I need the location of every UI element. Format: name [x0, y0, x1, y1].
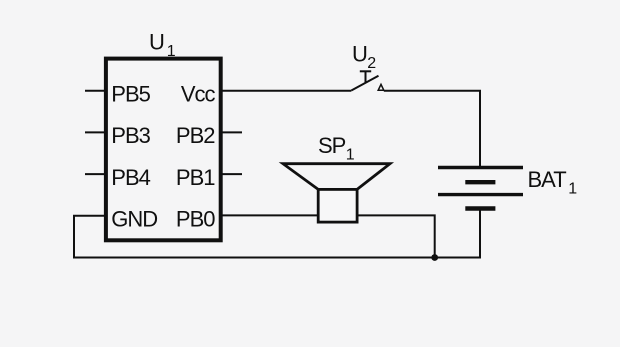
- svg-text:U: U: [352, 42, 367, 67]
- svg-text:PB0: PB0: [176, 206, 215, 231]
- svg-text:2: 2: [367, 55, 376, 72]
- wire pin stub PB1: [221, 173, 243, 175]
- switch contact triangle: [378, 84, 384, 90]
- svg-text:PB3: PB3: [111, 123, 150, 148]
- wire speaker to bottom rail: [357, 215, 435, 257]
- wire GND to bottom rail to battery bottom: [74, 209, 480, 258]
- wire pin stub PB2: [221, 131, 243, 133]
- svg-text:1: 1: [346, 146, 355, 163]
- speaker cone: [283, 164, 390, 190]
- IC U1 body: [106, 59, 221, 241]
- switch U2: [351, 42, 384, 91]
- wire pin stub PB4: [85, 173, 106, 175]
- svg-text:Vcc: Vcc: [181, 81, 216, 106]
- wire pin stub PB5: [85, 90, 106, 92]
- svg-text:PB2: PB2: [176, 123, 215, 148]
- svg-text:PB5: PB5: [111, 81, 150, 106]
- IC U1 (microcontroller): [106, 29, 221, 240]
- battery short plate bottom: [465, 206, 495, 210]
- switch lever: [351, 76, 378, 91]
- battery long plate top: [438, 166, 523, 169]
- svg-text:BAT: BAT: [528, 167, 567, 192]
- junction dot: [431, 254, 438, 261]
- svg-text:SP: SP: [318, 133, 346, 158]
- battery BAT1: [438, 167, 577, 208]
- svg-text:PB1: PB1: [176, 165, 215, 190]
- wire pin stub PB3: [85, 131, 106, 133]
- switch actuator T bar: [360, 70, 371, 72]
- battery short plate: [465, 180, 495, 184]
- switch actuator stem: [365, 71, 367, 82]
- battery long plate: [438, 193, 523, 196]
- wire Vcc to switch: [221, 90, 352, 92]
- svg-text:PB4: PB4: [111, 165, 150, 190]
- svg-text:1: 1: [568, 180, 577, 197]
- speaker body box: [318, 189, 357, 222]
- svg-text:GND: GND: [111, 206, 157, 231]
- wire switch to battery top: [384, 91, 480, 166]
- svg-text:1: 1: [167, 43, 176, 60]
- speaker SP1: [283, 133, 390, 222]
- wire PB0 to speaker: [221, 214, 319, 216]
- svg-text:U: U: [149, 29, 164, 54]
